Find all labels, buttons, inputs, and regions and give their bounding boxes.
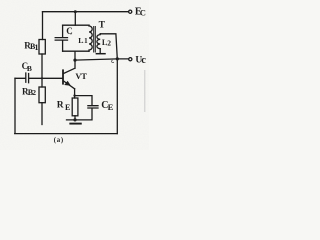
artifact dot in L2 label [106, 44, 108, 47]
resistor RB1 [39, 40, 45, 55]
svg-text:C: C [140, 8, 146, 18]
wire RB1 to RB2 [41, 54, 43, 87]
wire RE stem [74, 116, 76, 120]
wire tank left leg [62, 25, 64, 37]
terminal EC [129, 10, 132, 13]
resistor RE [72, 98, 78, 116]
wire CE return [67, 108, 93, 120]
svg-text:R: R [57, 100, 64, 110]
wire top-left corner down to RB1 [42, 12, 44, 40]
svg-text:E: E [108, 102, 114, 112]
transistor VT base bar [62, 70, 64, 83]
capacitor C [55, 38, 67, 41]
ground bar L2 [96, 53, 105, 55]
svg-text:C: C [66, 26, 73, 36]
junction dot emitter split [73, 94, 75, 96]
junction dot output right [116, 57, 119, 60]
wire output [75, 59, 129, 60]
artifact mark near output junction [112, 60, 114, 62]
svg-text:(a): (a) [54, 137, 64, 144]
wire RB2 lead down [41, 103, 43, 125]
junction dot collector node [73, 59, 76, 62]
svg-text:L: L [78, 36, 83, 45]
artifact dot after C [70, 33, 73, 34]
wire tank feed [74, 12, 76, 26]
ground bar emitter branch [70, 123, 81, 125]
wire emitter junction to CE [75, 96, 92, 106]
page artifact faint line [144, 70, 146, 112]
svg-text:E: E [65, 103, 70, 112]
wire base [30, 77, 63, 79]
inductor L1 [89, 25, 92, 51]
transistor VT collector lead [64, 51, 75, 73]
svg-text:1: 1 [35, 43, 39, 52]
junction dot CE return [73, 118, 76, 121]
wire bottom rail [15, 133, 118, 135]
transistor VT emitter arrow [64, 81, 71, 86]
svg-text:B: B [27, 64, 32, 73]
inductor L2 [97, 34, 100, 49]
wire tank bottom [63, 50, 89, 52]
wire left rail [14, 78, 16, 133]
transistor VT emitter lead [64, 81, 75, 89]
resistor RB2 [39, 87, 45, 103]
paper texture [0, 0, 149, 150]
wire tank top [63, 24, 89, 26]
junction dot base [41, 77, 43, 79]
svg-text:c: c [141, 55, 146, 66]
wire emitter down [74, 89, 76, 98]
capacitor CB [15, 73, 29, 83]
capacitor CE [88, 106, 98, 108]
svg-text:1: 1 [84, 37, 88, 45]
svg-text:T: T [99, 20, 106, 30]
junction dot top rail [74, 10, 77, 13]
terminal Uc [129, 58, 132, 61]
transformer core [94, 27, 96, 53]
svg-text:VT: VT [75, 71, 87, 81]
wire below C [62, 40, 64, 51]
wire right leg [116, 59, 118, 134]
wire L2 top lead [100, 34, 117, 59]
svg-text:2: 2 [32, 88, 36, 97]
wire top rail [43, 11, 129, 13]
artifact dot in L1 label [82, 41, 84, 44]
wire L2 bottom stem [99, 49, 101, 53]
svg-text:2: 2 [107, 39, 111, 48]
